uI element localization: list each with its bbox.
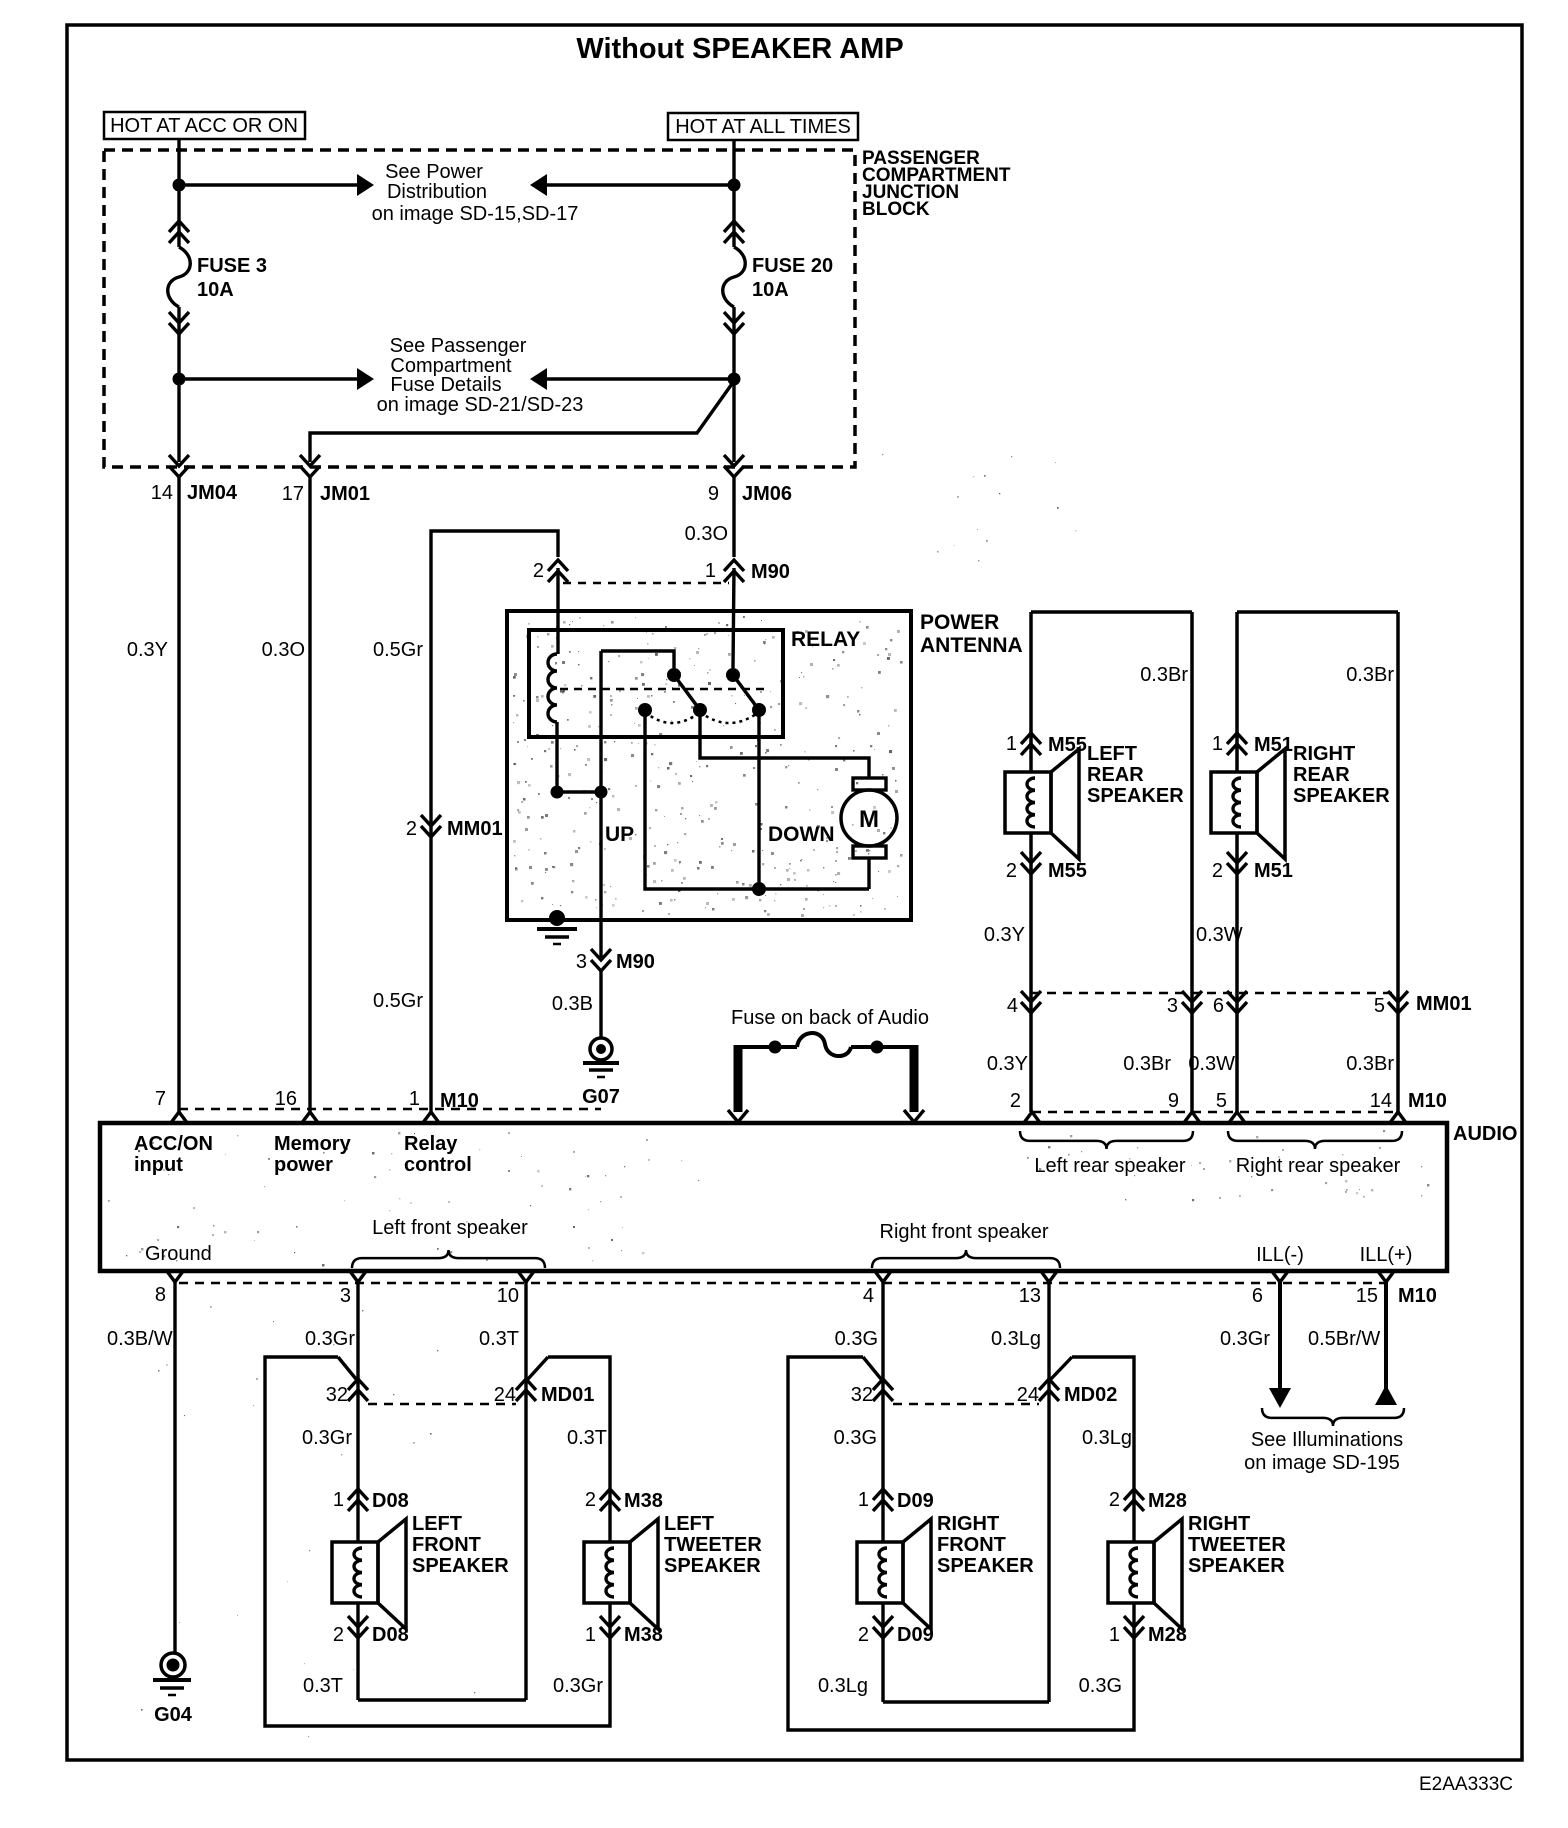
svg-text:LEFT: LEFT [1087,743,1137,765]
svg-text:G07: G07 [582,1086,620,1108]
svg-text:AUDIO: AUDIO [1453,1123,1517,1145]
svg-text:13: 13 [1019,1285,1041,1307]
svg-text:See Passenger: See Passenger [390,335,527,357]
wire 0.3O (JM06 to M90 pin1) [685,476,734,557]
svg-text:JM06: JM06 [742,483,792,505]
svg-text:D09: D09 [897,1490,934,1512]
svg-text:M28: M28 [1148,1490,1187,1512]
connector M38 pin 1 [585,1616,663,1646]
scan noise speckles [108,454,1429,1761]
svg-text:0.3T: 0.3T [303,1675,343,1697]
svg-text:2: 2 [406,818,417,840]
wire right-rear loop top [1237,610,1398,614]
junction block name [862,148,1011,220]
connector JM06 pin 9 [708,455,792,505]
audio pin 2 [1010,1090,1041,1124]
connector M90 pin 1 [705,560,790,583]
label right front speaker name [937,1513,1034,1577]
svg-text:0.3Br: 0.3Br [1140,664,1188,686]
svg-text:power: power [274,1154,333,1176]
connector M51 pin 2 [1212,852,1293,882]
svg-text:10: 10 [497,1285,519,1307]
connector MD02 pin 24 [1017,1379,1118,1406]
connector M38 pin 2 [585,1489,663,1512]
wire 0.5Gr (audio pin1 to relay) [373,531,558,1112]
svg-text:on image SD-195: on image SD-195 [1244,1452,1400,1474]
audio pin 7 [155,1088,188,1124]
svg-text:M28: M28 [1148,1624,1187,1646]
svg-text:ILL(-): ILL(-) [1256,1244,1304,1266]
connector MM01 pin 5 [1374,991,1472,1017]
connector JM01 pin 17 [282,455,370,505]
wire hot-all-times vertical [732,140,735,462]
wire 0.5Br/W ILL(+) [1308,1282,1397,1405]
relay blade left [674,675,700,710]
ground G04 symbol [153,1653,193,1726]
svg-text:MD02: MD02 [1064,1384,1117,1406]
relay dashed link [560,688,765,691]
svg-text:10A: 10A [197,279,234,301]
ground symbol (antenna) [537,929,577,944]
relay dotted arc right [700,712,759,723]
svg-text:1: 1 [705,560,716,582]
svg-text:JM04: JM04 [187,482,238,504]
svg-text:UP: UP [605,823,634,846]
svg-text:9: 9 [1168,1090,1179,1112]
svg-text:Right rear speaker: Right rear speaker [1236,1155,1401,1177]
svg-text:SPEAKER: SPEAKER [1188,1555,1285,1577]
svg-text:3: 3 [576,951,587,973]
svg-text:Memory: Memory [274,1133,352,1155]
svg-text:M51: M51 [1254,860,1293,882]
relay label [791,628,860,651]
connector M10 bottom dashed line [179,1282,1386,1285]
connector M28 pin 2 [1109,1489,1187,1512]
wire label 0.3W upper [1196,924,1243,946]
svg-text:9: 9 [708,483,719,505]
svg-text:LEFT: LEFT [664,1513,714,1535]
connector M90 pin 3 [576,949,655,973]
svg-text:M38: M38 [624,1490,663,1512]
svg-text:DOWN: DOWN [768,823,835,846]
fuse F20 element [723,247,746,307]
wire 0.3Y (JM04 to audio pin7) [127,476,179,1112]
relay dotted arc left [645,712,700,723]
svg-text:FRONT: FRONT [412,1534,481,1556]
svg-text:0.3Y: 0.3Y [127,639,168,661]
wire hot-acc vertical [177,139,180,462]
svg-text:0.5Gr: 0.5Gr [373,639,423,661]
audio label Ground [145,1243,212,1265]
power antenna box [507,611,911,920]
fuse dot left [769,1041,782,1054]
node A (junction dot) [173,179,186,192]
svg-text:SPEAKER: SPEAKER [664,1555,761,1577]
svg-text:0.3Lg: 0.3Lg [1082,1427,1132,1449]
wire to see-power-distribution arrow [179,183,357,186]
speaker left front [332,1519,406,1629]
node F (junction dot) [595,786,608,799]
label HOT AT ACC OR ON [104,112,305,139]
connector M90 dashed line [563,582,729,585]
svg-text:JM01: JM01 [320,483,370,505]
connector M90 pin 2 [533,560,568,582]
audio pin 4 [863,1270,892,1307]
wire D09 pin2 to loop [818,1603,1049,1702]
svg-text:6: 6 [1213,995,1224,1017]
label right rear speaker [1293,743,1390,807]
svg-text:0.3Gr: 0.3Gr [302,1427,352,1449]
svg-text:RIGHT: RIGHT [1188,1513,1250,1535]
wire left-rear loop top [1031,610,1192,614]
audio label ILL(-) [1256,1244,1304,1266]
label UP [605,823,634,846]
svg-text:HOT AT ALL TIMES: HOT AT ALL TIMES [675,116,851,138]
ground G07 symbol [582,1038,620,1108]
svg-text:RIGHT: RIGHT [937,1513,999,1535]
wire relay-control inside antenna [599,651,602,958]
wire M90 pin1 into relay [733,568,734,668]
svg-text:3: 3 [1167,995,1178,1017]
fuse F3 bottom chevrons [169,312,189,334]
fuse F20 bottom chevrons [724,312,744,334]
node D (junction dot) [728,373,741,386]
label left rear speaker [1087,743,1184,807]
svg-text:24: 24 [1017,1384,1039,1406]
svg-text:See Power: See Power [385,161,483,183]
relay contact lower-right [752,703,766,717]
svg-text:10A: 10A [752,279,789,301]
connector MM01 pin 4 [1007,991,1041,1017]
svg-text:M90: M90 [616,951,655,973]
svg-text:Left front speaker: Left front speaker [372,1217,528,1239]
svg-text:HOT AT ACC OR ON: HOT AT ACC OR ON [110,115,298,137]
svg-text:2: 2 [585,1489,596,1511]
svg-text:E2AA333C: E2AA333C [1419,1774,1513,1795]
connector M28 pin 1 [1109,1616,1187,1646]
audio pin 10 [497,1270,535,1307]
wire 0.3B/W (audio pin8 to G04) [107,1282,175,1653]
svg-text:RELAY: RELAY [791,628,860,651]
svg-text:32: 32 [326,1384,348,1406]
svg-text:ILL(+): ILL(+) [1360,1244,1413,1266]
fuse dot right [871,1041,884,1054]
connector MD01 dashed line [368,1403,516,1406]
svg-text:Left rear speaker: Left rear speaker [1034,1155,1186,1177]
connector D08 pin 2 [333,1616,409,1646]
connector MD02 pin 32 [851,1379,893,1406]
svg-text:2: 2 [1109,1489,1120,1511]
wire 0.3B [552,971,601,1038]
svg-text:0.3Br: 0.3Br [1123,1053,1171,1075]
svg-text:1: 1 [585,1624,596,1646]
svg-text:TWEETER: TWEETER [1188,1534,1286,1556]
speaker right rear [1211,749,1285,859]
node G (junction dot) [752,882,766,896]
arrow left (power distribution) [530,174,547,196]
wire right-rear speaker feed [1235,612,1239,1112]
svg-text:MD01: MD01 [541,1384,594,1406]
wire D08 pin2 to loop [303,1603,526,1700]
motor M [841,790,897,846]
svg-text:See Illuminations: See Illuminations [1251,1429,1403,1451]
label left tweeter name [664,1513,762,1577]
svg-text:0.3Y: 0.3Y [987,1053,1028,1075]
fuse F3 top chevrons [169,221,189,243]
svg-text:0.3T: 0.3T [479,1328,519,1350]
svg-text:0.3O: 0.3O [262,639,305,661]
svg-text:1: 1 [1212,733,1223,755]
relay blade right [733,675,759,710]
diagram code E2AA333C [1419,1774,1513,1795]
svg-text:2: 2 [333,1624,344,1646]
wire coil bottom [555,722,558,792]
wire labels below MD02 [834,1427,1132,1449]
label left front speaker name [412,1513,509,1577]
wire diagonal to JM01 [310,381,734,462]
svg-text:FUSE 20: FUSE 20 [752,255,833,277]
ground node (antenna) [549,910,565,926]
connector MM01 pin 3 [1167,991,1202,1017]
svg-text:SPEAKER: SPEAKER [937,1555,1034,1577]
svg-text:15: 15 [1356,1285,1378,1307]
svg-text:6: 6 [1252,1285,1263,1307]
audio pin 15 [1356,1270,1437,1307]
relay contact lower-left [638,703,652,717]
svg-text:1: 1 [409,1088,420,1110]
relay box [529,630,783,737]
note See Illuminations [1244,1429,1403,1474]
svg-text:8: 8 [155,1284,166,1306]
connector D08 pin 1 [333,1489,409,1512]
svg-text:on image SD-21/SD-23: on image SD-21/SD-23 [377,394,584,416]
svg-text:2: 2 [1212,860,1223,882]
wire junction horiz [557,790,601,793]
svg-text:16: 16 [275,1088,297,1110]
svg-text:SPEAKER: SPEAKER [1087,785,1184,807]
wire right-front outer loop [788,1357,1134,1730]
wire 0.3Gr ILL(-) [1220,1282,1291,1408]
wire left-rear speaker feed [1029,612,1033,1112]
svg-text:SPEAKER: SPEAKER [412,1555,509,1577]
svg-text:Right front speaker: Right front speaker [880,1221,1049,1243]
svg-text:4: 4 [1007,995,1018,1017]
svg-text:M38: M38 [624,1624,663,1646]
label HOT AT ALL TIMES [668,113,858,140]
wire UP contact down [645,710,869,889]
svg-text:14: 14 [151,482,173,504]
wire DOWN contact down [757,710,760,889]
svg-text:0.3O: 0.3O [685,523,728,545]
svg-text:0.5Gr: 0.5Gr [373,990,423,1012]
svg-text:14: 14 [1370,1090,1392,1112]
wire label 0.3G bottom right [1079,1675,1122,1697]
svg-text:5: 5 [1374,995,1385,1017]
svg-text:1: 1 [858,1489,869,1511]
svg-text:2: 2 [858,1624,869,1646]
label fuse on back of audio [731,1007,929,1029]
node E (junction dot) [551,786,564,799]
speaker right front [857,1519,931,1629]
audio pin 16 [275,1088,319,1124]
connector JM04 pin 14 [151,455,238,504]
wire label 0.3Y upper [984,924,1025,946]
svg-text:0.3Gr: 0.3Gr [553,1675,603,1697]
svg-text:0.3Br: 0.3Br [1346,664,1394,686]
fuse F3 label [197,255,267,301]
brace left rear speaker [1020,1131,1193,1177]
connector M10 rear dashed line [1032,1111,1398,1114]
note See Power Distribution [372,161,579,225]
svg-text:0.3Gr: 0.3Gr [305,1328,355,1350]
wire 0.3Br (right rear return) [1346,612,1398,1112]
svg-text:7: 7 [155,1088,166,1110]
svg-text:M51: M51 [1254,734,1293,756]
svg-text:0.3Gr: 0.3Gr [1220,1328,1270,1350]
svg-text:M90: M90 [751,561,790,583]
svg-text:1: 1 [333,1489,344,1511]
svg-text:REAR: REAR [1087,764,1144,786]
connector MD01 pin 32 [326,1379,368,1406]
title [576,33,903,65]
connector MM01 pin 2 [406,815,503,840]
svg-text:on image SD-15,SD-17: on image SD-15,SD-17 [372,203,579,225]
audio pin 1 [409,1088,479,1124]
connector MM01 pin 6 [1213,991,1247,1017]
audio pin 5 [1216,1090,1246,1124]
svg-text:Distribution: Distribution [387,181,487,203]
wire left-tweeter top [528,1357,610,1542]
svg-text:5: 5 [1216,1090,1227,1112]
svg-text:17: 17 [282,483,304,505]
wire 0.3Br (left rear return) [1140,612,1192,1112]
svg-text:M10: M10 [1408,1090,1447,1112]
svg-text:0.3G: 0.3G [835,1328,878,1350]
connector M10 top dashed line [179,1108,601,1111]
label left front speaker [352,1217,545,1268]
label right front speaker [872,1221,1060,1268]
wire to see-fuse-details arrow [179,377,357,380]
svg-text:D08: D08 [372,1624,409,1646]
svg-text:LEFT: LEFT [412,1513,462,1535]
svg-text:D08: D08 [372,1490,409,1512]
svg-text:2: 2 [533,560,544,582]
wire right-tweeter top [1051,1357,1134,1542]
wire label 0.3Gr bottom [553,1675,603,1697]
audio pin 14 [1370,1090,1447,1124]
svg-text:3: 3 [340,1285,351,1307]
brace see illuminations [1262,1408,1404,1426]
audio label Memory power [274,1133,352,1176]
fuse (back of audio) element [734,1033,918,1056]
audio box [100,1123,1447,1271]
svg-text:24: 24 [494,1384,516,1406]
fuse F20 label [752,255,833,301]
svg-text:ANTENNA: ANTENNA [920,634,1023,657]
svg-text:D09: D09 [897,1624,934,1646]
label DOWN [768,823,835,846]
speaker right tweeter [1108,1519,1182,1629]
svg-text:0.3G: 0.3G [834,1427,877,1449]
svg-text:input: input [134,1154,183,1176]
connector MD01 pin 24 [494,1379,595,1406]
audio label ACC/ON input [134,1133,213,1176]
svg-text:0.3B: 0.3B [552,993,593,1015]
relay contact upper-left [667,668,681,682]
svg-text:MM01: MM01 [1416,993,1472,1015]
svg-text:M: M [859,806,879,833]
audio pin 6 [1252,1270,1289,1307]
svg-text:0.3T: 0.3T [567,1427,607,1449]
speaker left tweeter [584,1519,658,1629]
svg-text:Ground: Ground [145,1243,212,1265]
svg-text:0.5Br/W: 0.5Br/W [1308,1328,1380,1350]
svg-text:FRONT: FRONT [937,1534,1006,1556]
svg-text:2: 2 [1010,1090,1021,1112]
connector MM01 dashed line [1031,992,1398,995]
svg-text:1: 1 [1109,1624,1120,1646]
svg-text:Relay: Relay [404,1133,458,1155]
svg-text:0.3Br: 0.3Br [1346,1053,1394,1075]
node C (junction dot) [173,373,186,386]
wire 0.3Lg (audio pin13 down) [991,1282,1049,1702]
audio label Relay control [404,1133,472,1176]
wire 0.3O (JM01 to audio pin16) [262,476,310,1112]
connector M51 pin 1 [1212,733,1293,756]
audio pin 3 [340,1270,367,1307]
connector D09 pin 1 [858,1489,934,1512]
svg-text:M10: M10 [1398,1285,1437,1307]
audio label [1453,1123,1517,1145]
svg-text:M55: M55 [1048,734,1087,756]
speaker left rear [1005,749,1079,859]
svg-text:TWEETER: TWEETER [664,1534,762,1556]
connector MD02 dashed line [893,1403,1039,1406]
svg-text:1: 1 [1006,733,1017,755]
passenger compartment junction block (dashed) [104,150,855,467]
wire left-front outer loop [265,1357,610,1726]
svg-text:control: control [404,1154,472,1176]
fuse F3 element [168,247,191,307]
wire mid contact to motor [700,710,869,778]
relay coil [548,654,557,722]
note See Passenger Compartment Fuse Details [377,335,584,416]
arrow left (fuse details) [530,368,547,390]
wire 0.3T (audio pin10 down) [479,1282,526,1700]
svg-text:G04: G04 [154,1704,193,1726]
node B (junction dot) [728,179,741,192]
svg-text:4: 4 [863,1285,874,1307]
brace right rear speaker [1228,1131,1402,1177]
wire 0.3G (audio pin4 down) [835,1282,883,1542]
relay contact upper-right [726,668,740,682]
wire to upper-left contact [601,651,674,668]
svg-text:2: 2 [1006,860,1017,882]
wire 0.3Gr (audio pin3 down) [305,1282,358,1542]
audio label ILL(+) [1360,1244,1413,1266]
wire from JM06 node to arrow [547,377,734,380]
svg-text:REAR: REAR [1293,764,1350,786]
svg-text:M55: M55 [1048,860,1087,882]
svg-text:SPEAKER: SPEAKER [1293,785,1390,807]
svg-text:0.3B/W: 0.3B/W [107,1328,173,1350]
svg-text:FUSE 3: FUSE 3 [197,255,267,277]
svg-text:RIGHT: RIGHT [1293,743,1355,765]
fuse (back of audio) left lead [728,1045,748,1122]
svg-text:ACC/ON: ACC/ON [134,1133,213,1155]
relay contact lower-mid [693,703,707,717]
power antenna label [920,611,1023,657]
